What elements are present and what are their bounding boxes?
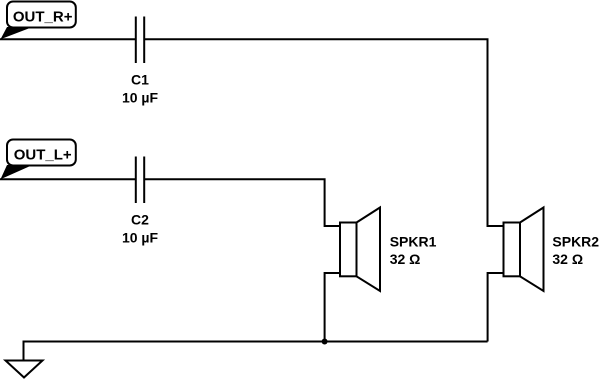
wire C2 to SPKR1 top pin	[144, 179, 340, 226]
svg-text:10 µF: 10 µF	[122, 89, 159, 105]
net flag OUT_L+	[1, 140, 76, 180]
svg-text:10 µF: 10 µF	[122, 229, 159, 245]
capacitor C2	[136, 157, 144, 204]
svg-text:OUT_L+: OUT_L+	[14, 147, 72, 164]
svg-text:SPKR1: SPKR1	[390, 234, 437, 250]
wire OUT_R+ to C1	[0, 38, 136, 40]
junction dot	[322, 339, 328, 345]
wire SPKR1 bottom pin to ground bus	[325, 273, 340, 342]
svg-text:C2: C2	[131, 212, 149, 228]
wire C1 to SPKR2 top pin	[144, 39, 503, 226]
ground	[6, 341, 43, 378]
svg-text:OUT_R+: OUT_R+	[13, 9, 73, 26]
svg-text:32 Ω: 32 Ω	[390, 251, 421, 267]
svg-text:SPKR2: SPKR2	[552, 234, 599, 250]
svg-text:32 Ω: 32 Ω	[552, 251, 583, 267]
wire ground bus	[24, 341, 488, 343]
capacitor C1	[136, 17, 144, 64]
net flag OUT_R+	[1, 2, 76, 40]
svg-text:C1: C1	[131, 72, 149, 88]
wire SPKR2 bottom pin down	[488, 273, 504, 342]
speaker SPKR1	[340, 208, 380, 292]
wire OUT_L+ to C2	[0, 178, 136, 180]
speaker SPKR2	[504, 208, 544, 292]
